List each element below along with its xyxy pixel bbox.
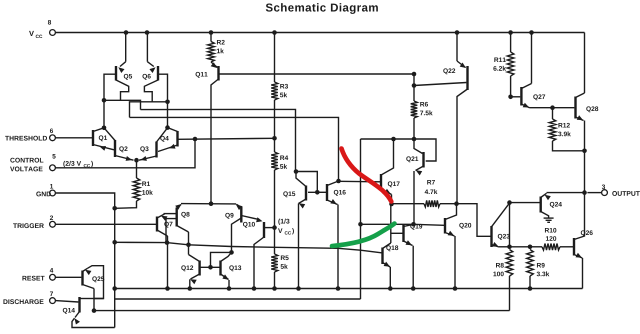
wire Q4 base line xyxy=(178,138,275,139)
wire R9-R10 link xyxy=(530,246,542,248)
wire Q21 emitter drop xyxy=(413,171,415,224)
wire TRIGGER line xyxy=(55,223,156,225)
wire comparator output line xyxy=(115,242,382,253)
wire GND pin line xyxy=(55,193,114,208)
node Q15 collector node xyxy=(294,169,299,174)
node Q15 base node xyxy=(315,190,320,195)
wire R1 bottom xyxy=(115,201,137,208)
wire Q25 emitter hook xyxy=(88,266,104,299)
node Q22 base node xyxy=(412,83,417,88)
node Q1 collector junction xyxy=(102,126,107,131)
wire Q11 base line xyxy=(219,73,415,75)
wire Q22 emitter drop xyxy=(456,33,458,62)
wire Q28 emitter drop xyxy=(584,121,586,151)
node bus Q13 xyxy=(227,286,232,291)
wire R7 node to Q23 base xyxy=(457,204,491,237)
transistor Q26 xyxy=(574,193,593,258)
node 1/3 VCC xyxy=(272,225,277,230)
green annotation curve xyxy=(332,224,395,247)
node Q4 collector junction xyxy=(165,125,170,130)
wire Q14 base bus xyxy=(115,298,361,300)
transistor Q14 xyxy=(63,297,91,325)
node pin5 riser junction xyxy=(193,137,198,142)
node Q16-Q17 base node xyxy=(336,179,341,184)
wire R6 top lead xyxy=(413,86,415,102)
resistor R6 xyxy=(411,101,433,118)
wire Q19 base link xyxy=(391,232,403,234)
node R12-Q28 node xyxy=(582,149,587,154)
wire output line xyxy=(547,192,585,194)
transistor Q10 xyxy=(243,222,264,289)
wire Q13 emitter drop xyxy=(228,280,230,289)
wire Q8 base hook xyxy=(166,219,177,243)
node Q5-base junction xyxy=(102,98,107,103)
node rail-R3 xyxy=(272,30,277,35)
wire Q10 base to 1/3 node xyxy=(264,227,275,229)
resistor R5 xyxy=(271,254,288,272)
node rail-Q5 xyxy=(124,30,129,35)
pin 4 RESET xyxy=(22,268,55,281)
wire RESET line xyxy=(55,276,81,278)
wire Q14 emitter loop xyxy=(72,318,115,327)
node bus Q19 xyxy=(411,286,416,291)
wire R7 left lead xyxy=(392,203,425,205)
wire Q17 base line xyxy=(339,180,381,183)
wire Q16 emitter drop xyxy=(337,205,339,289)
wire THRESHOLD line xyxy=(55,137,92,139)
wire Q22 base xyxy=(414,83,466,86)
transistor Q7 xyxy=(157,214,173,236)
wire Q22 collector xyxy=(457,89,468,204)
transistor Q6 xyxy=(142,62,158,81)
wire R3 bottom to 2/3 node xyxy=(274,100,276,138)
wire R2 top xyxy=(210,33,212,42)
node emitter bus center xyxy=(209,201,214,206)
node rail-Q27 xyxy=(529,30,534,35)
node rail-Q22 xyxy=(455,30,460,35)
resistor R1 xyxy=(133,178,153,201)
node Q12-Q13 base node xyxy=(208,265,213,270)
pin 6 THRESHOLD xyxy=(5,128,55,140)
wire base node riser xyxy=(211,252,232,267)
wire Q8 collector drop xyxy=(188,232,190,255)
red annotation curve xyxy=(342,149,392,202)
wire Q7 emitter to Q8 base xyxy=(164,213,177,215)
wire Q5 collector step xyxy=(116,80,129,100)
wire Q20 emitter drop xyxy=(454,236,456,289)
wire Q15 emitter drop xyxy=(298,204,300,289)
wire GND riser xyxy=(114,208,116,327)
node x360-y224 xyxy=(358,222,363,227)
pin 5 CONTROL VOLTAGE xyxy=(10,154,56,171)
node Q2 Q3 emitters xyxy=(134,158,139,163)
transistor Q4 xyxy=(158,128,178,152)
wire Q6 emitter drop xyxy=(146,33,148,62)
wire VCC rail xyxy=(55,32,584,34)
resistor R4 xyxy=(271,152,288,170)
node Q27 base node xyxy=(508,95,513,100)
wire Q5 output run xyxy=(104,100,141,109)
wire Q19 emitter drop xyxy=(412,246,414,289)
node R6 bottom xyxy=(412,137,417,142)
label 1/3 VCC xyxy=(278,219,294,235)
node R12 top node xyxy=(550,105,555,110)
node R1-GND junction xyxy=(112,206,117,211)
transistor Q25 xyxy=(83,268,105,288)
wire ground bus xyxy=(115,288,583,290)
wire R8 bottom xyxy=(509,276,511,311)
wire Q24 base line xyxy=(510,202,540,204)
wire R6 bottom xyxy=(413,118,415,139)
transistor Q11 xyxy=(196,62,219,204)
resistor R3 xyxy=(271,82,288,100)
wire Q27 emitter to R12 node xyxy=(530,107,553,109)
transistor Q22 xyxy=(443,61,467,90)
wire R8 column upper xyxy=(509,203,511,247)
wire Q6 line to Q17 base xyxy=(130,117,339,181)
wire Q26 emitter drop xyxy=(582,258,584,289)
wire Q12 emitter drop xyxy=(189,279,191,288)
wire R9 bottom xyxy=(529,276,531,289)
transistor Q8 xyxy=(175,204,189,232)
wire Q7 collector drop xyxy=(167,236,169,289)
transistor Q27 xyxy=(521,84,545,108)
wire R5 top xyxy=(274,228,276,254)
title xyxy=(266,3,378,14)
resistor R12 xyxy=(549,119,571,141)
node discharge node xyxy=(92,308,97,313)
transistor Q17 xyxy=(381,139,400,195)
wire R6 node link xyxy=(413,74,415,86)
wire Q14 collector link xyxy=(91,298,104,300)
wire R5 bottom xyxy=(274,272,276,289)
node lineA GND riser xyxy=(112,240,117,245)
wire Q20 base line xyxy=(414,224,445,225)
wire R12 top lead xyxy=(552,108,554,119)
wire R1 top xyxy=(136,160,138,178)
node 2/3 VCC xyxy=(272,136,277,141)
node bus Q7 xyxy=(165,286,170,291)
wire Q25 collector drop xyxy=(93,289,95,311)
pin 1 GND xyxy=(36,184,55,196)
node bus Q20 xyxy=(453,286,458,291)
node Q17 collector junction xyxy=(391,137,396,142)
wire R10 to Q26 base xyxy=(560,246,573,248)
resistor R11 xyxy=(493,52,514,76)
wire Q27 base link xyxy=(511,96,521,98)
resistor R10 xyxy=(542,244,560,251)
node bus Q12 xyxy=(188,286,193,291)
transistor Q2 xyxy=(104,128,134,161)
transistor Q21 xyxy=(406,139,423,176)
ground symbol under Q24 xyxy=(544,218,554,222)
resistor R8 xyxy=(493,250,512,277)
wire Q5 line to Q15 xyxy=(141,109,296,171)
wire Q9 collector to Q10 xyxy=(241,216,262,223)
wire R11 bottom xyxy=(510,76,512,97)
node Q11 base - R6 top xyxy=(412,72,417,77)
pin 3 OUTPUT xyxy=(602,184,640,195)
transistor Q3 xyxy=(139,128,168,161)
wire DISCHARGE line xyxy=(55,301,78,302)
wire Q5 base hook xyxy=(104,74,115,128)
transistor Q19 xyxy=(404,224,423,246)
pin 2 TRIGGER xyxy=(13,215,55,228)
wire R11 top xyxy=(510,33,512,53)
pin 8 VCC xyxy=(29,20,55,38)
wire Q18 collector riser xyxy=(390,204,392,243)
node bus Q15 xyxy=(296,286,301,291)
wire Q12-Q13 base link xyxy=(200,266,221,268)
wire y224 line xyxy=(361,223,414,225)
transistor Q5 xyxy=(116,62,132,81)
wire right vertical to output xyxy=(584,151,586,193)
wire discharge bus xyxy=(94,310,510,312)
transistor Q16 xyxy=(327,181,346,205)
wire R8-R9 link xyxy=(510,246,531,248)
wire Q6 base hook xyxy=(159,74,168,127)
transistor Q13 xyxy=(221,252,242,279)
node bus Q10 xyxy=(252,286,257,291)
node rail-R2 xyxy=(209,30,214,35)
wire R3 top xyxy=(274,33,276,83)
wire R4 bottom to 1/3 node xyxy=(274,170,276,228)
wire Q23 emitter to R8 node xyxy=(499,246,510,248)
pin 7 DISCHARGE xyxy=(3,292,55,305)
wire R7 right lead xyxy=(440,203,457,205)
wire Q17 emitter drop xyxy=(391,195,393,205)
transistor Q23 xyxy=(492,203,510,247)
node Q6-base junction xyxy=(165,100,170,105)
resistor R7 xyxy=(424,180,440,207)
wire Q28 base link xyxy=(553,107,575,109)
resistor R2 xyxy=(208,40,225,62)
wire Q18 emitter drop xyxy=(389,267,391,289)
wire Q17 collector line xyxy=(361,139,437,161)
node output node xyxy=(582,190,587,195)
node Q17 emitter node xyxy=(389,202,394,207)
label R10 xyxy=(545,228,556,241)
node lineA Q7-Q8 xyxy=(165,240,170,245)
wire x360 long vertical xyxy=(360,139,362,299)
node R8 top node xyxy=(507,245,512,250)
wire Q8-Q9 emitter bus xyxy=(181,203,236,205)
node y224 Q21-Q19 xyxy=(411,222,416,227)
node bus R5 xyxy=(272,286,277,291)
wire Q5 emitter drop xyxy=(125,33,127,62)
node bus Q16 xyxy=(336,286,341,291)
transistor Q18 xyxy=(383,243,399,267)
transistor Q24 xyxy=(541,193,562,217)
transistor Q20 xyxy=(445,204,471,236)
wire Q27 collector riser xyxy=(531,33,533,84)
node rail-R11 xyxy=(508,30,513,35)
wire Q15-Q16 base link xyxy=(317,191,326,193)
wire Q15 base loop xyxy=(296,172,317,193)
wire VCC rail right drop xyxy=(584,33,586,94)
node Q24 base node xyxy=(507,200,512,205)
transistor Q1 xyxy=(93,128,114,151)
node Q13 collector node xyxy=(229,250,234,255)
node bus R9 xyxy=(528,286,533,291)
node lineA Q8-Q12 xyxy=(186,243,191,248)
node gnd riser-bus xyxy=(112,286,117,291)
transistor Q9 xyxy=(225,204,242,252)
node rail-Q6 xyxy=(145,30,150,35)
wire CONTROL VOLTAGE line xyxy=(55,139,195,168)
wire output stub xyxy=(587,192,601,194)
node R9 top node xyxy=(528,245,533,250)
label 2/3 VCC xyxy=(63,161,93,167)
wire R12 bottom xyxy=(553,141,585,151)
node bus Q18 xyxy=(388,286,393,291)
wire Q6 collector step xyxy=(144,80,158,102)
transistor Q28 xyxy=(576,93,599,121)
transistor Q15 xyxy=(283,172,306,209)
resistor R9 xyxy=(527,250,550,277)
wire R4 top xyxy=(274,138,276,152)
node R7 right node xyxy=(454,201,459,206)
wire Q6 output run xyxy=(130,102,168,118)
transistor Q12 xyxy=(181,255,199,285)
